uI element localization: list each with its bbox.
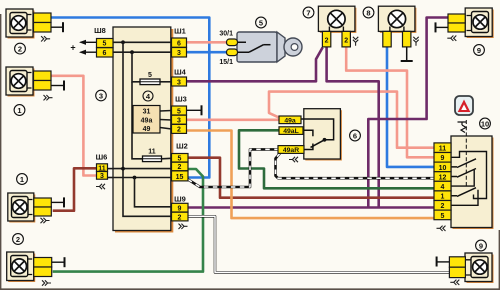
- hazard switch internals: [452, 152, 487, 199]
- mounting block 3 body: [113, 27, 171, 231]
- wire salmon: top-left lamp 1 down to Ш6-3: [51, 76, 97, 176]
- svg-text:Ш1: Ш1: [174, 27, 186, 36]
- wire purple: lamp 7 left pin down-right to purple bus: [327, 48, 379, 208]
- node label 3: [96, 90, 107, 101]
- wire black-white dashed: turn switch 49aR around to hazard pin 12: [276, 153, 435, 178]
- wire internal: Ш8-5 to Ш1-6: [113, 41, 172, 43]
- node dot junction A: [121, 40, 125, 44]
- svg-text:2: 2: [344, 38, 348, 45]
- lamp 2 front-left (bottom): [7, 252, 65, 286]
- node dot junction B: [130, 50, 134, 54]
- node label 2 (top-left): [15, 43, 26, 54]
- svg-text:9: 9: [178, 205, 182, 212]
- svg-text:12: 12: [439, 174, 447, 181]
- wire purple: Ш4-3 to lamp 7 left pin: [187, 48, 323, 82]
- wire internal: Ш6-11 to Ш2-2: [113, 168, 172, 170]
- relay 4 label: [143, 91, 153, 101]
- svg-text:3: 3: [99, 91, 103, 100]
- svg-text:Ш3: Ш3: [175, 95, 187, 104]
- hazard triangle icon: [455, 96, 473, 115]
- wire brown: Ш2-5 down and right to hazard pin 1: [188, 158, 434, 198]
- ground at Ш3-5: [187, 105, 202, 115]
- svg-text:3: 3: [177, 50, 181, 57]
- svg-text:6: 6: [103, 50, 107, 57]
- connector Ш9 pin 9: [172, 203, 189, 212]
- wire internal: Ш6-3 to Ш2-15: [113, 177, 172, 179]
- svg-text:30/1: 30/1: [219, 31, 233, 38]
- rear lamp 9 (bottom-right): [437, 253, 494, 285]
- node label 8: [363, 7, 374, 18]
- svg-text:+: +: [70, 43, 75, 53]
- svg-text:Ш8: Ш8: [94, 26, 106, 35]
- hazard button symbol: [458, 122, 467, 133]
- arrow to battery from Ш8-5: [79, 40, 97, 45]
- svg-text:15/1: 15/1: [219, 59, 233, 66]
- connector Ш3 pin 3: [172, 115, 187, 124]
- wire internal: Ш8-6 to Ш1-3: [113, 51, 172, 53]
- svg-text:49: 49: [143, 126, 151, 133]
- svg-text:31: 31: [143, 109, 151, 116]
- svg-text:49aL: 49aL: [283, 128, 299, 135]
- svg-text:6: 6: [177, 40, 181, 47]
- connector Ш9 pin 2: [172, 212, 189, 221]
- node label 6: [350, 130, 361, 141]
- svg-text:8: 8: [366, 8, 370, 17]
- connector Ш2 pin 5: [172, 154, 189, 163]
- svg-text:2: 2: [178, 214, 182, 221]
- wire orange: Ш3-2 down and right to hazard pin 5: [187, 131, 435, 219]
- svg-text:11: 11: [439, 146, 447, 153]
- node label 7: [303, 7, 314, 18]
- node label 9 (top-right): [474, 45, 485, 56]
- wire blue: front lamp 2 top-left to node and down to Ш2-15: [51, 18, 209, 178]
- svg-text:4: 4: [441, 184, 445, 191]
- pilot lamp 8: [378, 6, 418, 61]
- wire white: Ш9-2 down and right to bottom rear lamp 9: [188, 216, 450, 272]
- svg-text:1: 1: [20, 175, 24, 184]
- node label 5: [256, 17, 267, 28]
- node label 9 (bottom-right): [476, 240, 487, 251]
- fuse 5: [140, 72, 172, 85]
- connector Ш1 pin 6: [172, 38, 187, 47]
- wire internal: feed down to fuse 11: [132, 82, 143, 159]
- hazard switch 10: [434, 120, 494, 231]
- svg-text:9: 9: [441, 155, 445, 162]
- wire black-white dashed: Ш2-15 to turn switch 49aR: [188, 149, 279, 187]
- svg-text:15: 15: [176, 174, 184, 181]
- wire salmon: turn switch 49a up and over to hazard pin 11: [269, 92, 434, 148]
- connector Ш3 pin 5: [172, 106, 187, 115]
- wire dark green: turn switch 49aL staircase to hazard pin 4: [239, 130, 434, 188]
- svg-text:5: 5: [103, 41, 107, 48]
- svg-text:3: 3: [177, 79, 181, 86]
- connector Ш2 pin 15: [172, 171, 189, 181]
- svg-text:Ш6: Ш6: [96, 153, 108, 162]
- wire internal: vertical from junction A down to Ш9-2: [123, 42, 172, 216]
- connector Ш8 pin 6: [97, 48, 114, 58]
- wire purple: Ш9-9 to hazard pin 2: [188, 206, 434, 209]
- relay 4 body: [133, 106, 160, 134]
- svg-text:1: 1: [17, 106, 21, 115]
- svg-text:2: 2: [178, 164, 182, 171]
- connector Ш6 pin 3: [97, 172, 114, 181]
- lamp 1 side-left (upper): [6, 67, 64, 100]
- svg-text:Ш9: Ш9: [174, 195, 186, 204]
- wire purple: rear lamp 9 top-right down, left, and down to purple bus: [368, 18, 448, 208]
- svg-text:3: 3: [177, 118, 181, 125]
- wire brown: bottom-left lamp 1 to Ш6-11: [53, 168, 97, 210]
- svg-text:3: 3: [100, 173, 104, 180]
- node label 2 (bottom-left): [13, 234, 24, 245]
- node label 10: [480, 118, 491, 129]
- svg-text:Ш4: Ш4: [174, 68, 187, 77]
- svg-text:2: 2: [16, 235, 20, 244]
- arrow mark at Ш6: [96, 184, 105, 189]
- connector Ш6 pin 11: [97, 164, 114, 173]
- fuse 11: [143, 149, 172, 162]
- connector Ш8 pin 5: [97, 39, 114, 48]
- node label 1 (bottom-left): [17, 174, 28, 185]
- svg-text:5: 5: [259, 18, 263, 27]
- wire internal: junction D down to Ш9-9: [135, 178, 172, 207]
- svg-text:7: 7: [306, 8, 310, 17]
- turn signal switch 6: [278, 109, 342, 163]
- svg-text:9: 9: [479, 241, 483, 250]
- ignition switch 5: [219, 31, 302, 67]
- node dot junction D: [133, 176, 137, 180]
- svg-text:2: 2: [18, 44, 22, 53]
- arrow to battery from Ш8-6: [79, 50, 97, 55]
- svg-text:Ш2: Ш2: [176, 142, 188, 151]
- svg-text:49a: 49a: [141, 117, 153, 124]
- svg-text:49a: 49a: [284, 117, 296, 124]
- wire internal: vertical from junction B to fuse 5 and fuse 11: [132, 52, 140, 82]
- svg-text:2: 2: [325, 38, 329, 45]
- svg-text:5: 5: [177, 108, 181, 115]
- svg-text:10: 10: [439, 165, 447, 172]
- lamp 2 front-left (top-left): [6, 9, 63, 42]
- svg-text:9: 9: [477, 46, 481, 55]
- lamp 1 side-left (lower): [8, 193, 64, 223]
- node label 1 (top-left): [14, 105, 25, 116]
- svg-text:5: 5: [441, 213, 445, 220]
- connector Ш2 pin 2: [172, 162, 189, 171]
- connector Ш3 pin 2: [172, 124, 187, 133]
- node dot junction C: [121, 167, 125, 171]
- wire blue: lamp 8 left pin down to hazard pin 10: [387, 47, 434, 167]
- wires layer: [51, 18, 450, 273]
- connector Ш4 pin 3: [172, 77, 187, 86]
- svg-text:5: 5: [148, 72, 152, 79]
- wire salmon: Ш1-6 to ignition 30/1: [187, 41, 228, 44]
- svg-text:1: 1: [441, 194, 445, 201]
- pilot lamp 7: [318, 6, 358, 47]
- svg-text:2: 2: [441, 203, 445, 210]
- mounting block 3 shadow: [115, 29, 173, 233]
- wire green: Ш2-2 down to bottom-left lamp 2: [53, 169, 203, 272]
- svg-text:10: 10: [481, 119, 489, 128]
- svg-text:5: 5: [178, 156, 182, 163]
- svg-text:2: 2: [177, 127, 181, 134]
- node: blue junction at ignition feed: [208, 50, 212, 54]
- wire salmon: Ш3-3 to turn switch 49a: [187, 119, 280, 122]
- rear lamp 9 (top-right): [436, 8, 494, 41]
- connector Ш1 pin 3: [172, 48, 187, 58]
- components layer: [70, 26, 201, 233]
- svg-text:11: 11: [148, 149, 156, 156]
- relay 4 leads to Ш3: [160, 110, 172, 113]
- wire salmon: lamp 7 right pin to hazard pin 9: [346, 47, 434, 158]
- svg-text:6: 6: [353, 131, 357, 140]
- wire blue: Ш1-3 to ignition 15/1: [187, 51, 228, 54]
- arrow mark at Ш9: [179, 224, 188, 229]
- svg-text:49aR: 49aR: [283, 147, 299, 154]
